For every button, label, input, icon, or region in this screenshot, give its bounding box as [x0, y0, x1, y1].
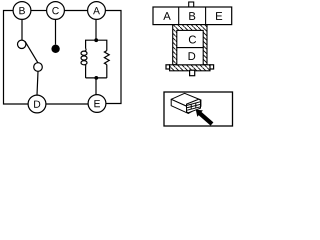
junction dot bottom [94, 76, 98, 80]
arrow to relay [196, 110, 214, 126]
relay icon frame [164, 92, 233, 126]
wire junction to E [95, 78, 97, 95]
terminal A [88, 2, 106, 20]
wire switch to D [37, 71, 38, 95]
label D [34, 101, 40, 108]
label E [94, 100, 100, 107]
cavity label C [189, 36, 196, 44]
relay body right face [188, 100, 201, 113]
connector pinout top tab [189, 2, 194, 7]
wire coil down [85, 67, 87, 78]
divider B|E [205, 7, 207, 25]
switch contact upper [18, 40, 26, 48]
relay socket grid columns [191, 103, 196, 109]
base bottom tab [190, 70, 195, 76]
label B [19, 7, 24, 14]
terminal D [28, 95, 46, 113]
relay socket block [187, 99, 201, 113]
connector shell hatched [173, 25, 207, 65]
wire C-A [65, 10, 88, 12]
terminal E [88, 95, 106, 113]
cell label E [216, 12, 222, 20]
wire B to switch [21, 19, 23, 40]
wire B-C [31, 10, 47, 12]
divider A|B [178, 7, 180, 25]
wire A to right edge to E [106, 11, 122, 104]
base left tab [166, 65, 170, 69]
wire C down [55, 19, 57, 44]
branch bottom wire [86, 77, 107, 79]
switch blade [25, 41, 38, 63]
relay body top face [171, 93, 201, 107]
wire A down [95, 19, 97, 40]
relay socket rim line [187, 102, 201, 106]
switch contact lower [34, 63, 43, 72]
contact point C [51, 45, 59, 53]
cavity label D [189, 52, 196, 60]
label C [52, 7, 59, 14]
connector pinout row box [153, 7, 232, 25]
wire D-E [46, 103, 88, 105]
cell label B [189, 12, 195, 20]
connector base bar hatched [170, 65, 210, 71]
cavity C [177, 30, 203, 47]
cavity D [177, 48, 203, 65]
resistor R1 [104, 51, 109, 65]
wire resistor down [106, 65, 108, 78]
terminal B [13, 2, 31, 20]
label A [93, 7, 100, 14]
relay body left face [171, 99, 188, 113]
junction dot top [94, 38, 98, 42]
relay socket grid rows [187, 104, 201, 110]
wire left loop B to D [4, 11, 29, 105]
terminal C [47, 2, 65, 20]
branch top wire [86, 40, 107, 50]
coil L1 [85, 49, 87, 52]
base right tab [210, 65, 214, 69]
cell label A [163, 12, 171, 20]
